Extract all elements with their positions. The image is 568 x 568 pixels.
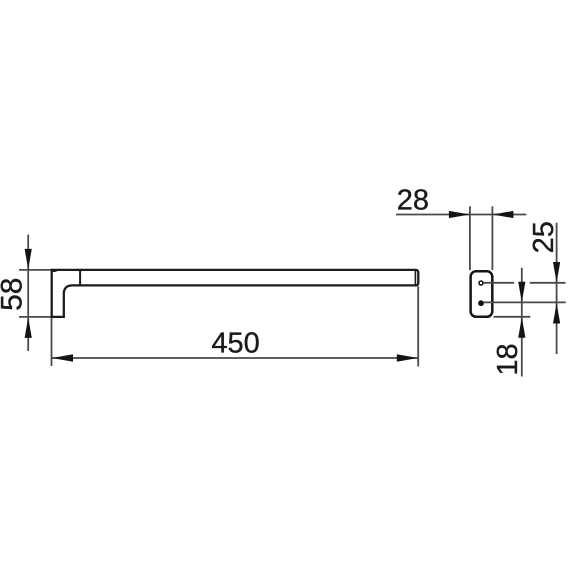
- svg-text:18: 18: [492, 343, 524, 375]
- svg-text:450: 450: [211, 327, 259, 359]
- svg-text:25: 25: [528, 221, 560, 253]
- svg-text:58: 58: [0, 278, 29, 311]
- svg-text:28: 28: [397, 185, 429, 217]
